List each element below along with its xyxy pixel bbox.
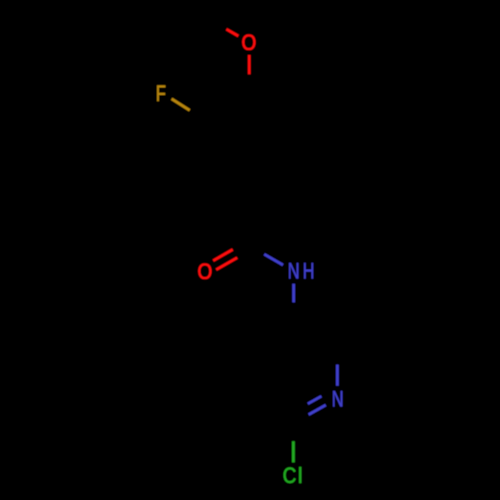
svg-text:C: C [283, 465, 297, 489]
svg-text:O: O [198, 260, 213, 285]
bond C=O2 double line 1 (upper, half near O, red) [213, 250, 233, 261]
bond C2-N1(pyridine) (half near N, blue) [336, 365, 339, 386]
svg-text:H: H [303, 260, 315, 284]
svg-text:l: l [298, 464, 302, 488]
bond N(H)-C3(pyridine) (half near N, blue) [292, 284, 295, 303]
svg-text:O: O [242, 31, 257, 56]
bond C=O2 double line 2 (lower, half near O, red) [216, 258, 237, 270]
bond C6-Cl (half near Cl, green) [292, 441, 295, 462]
bond N1=C6 double main line (half near N, blue) [309, 405, 326, 415]
bond F-C3(ring) (half near F, goldenrod) [172, 99, 190, 111]
bond N1=C6 double inner line (half near N, blue) [308, 396, 322, 404]
svg-text:N: N [288, 259, 300, 284]
svg-text:F: F [156, 82, 166, 107]
svg-text:N: N [332, 387, 344, 412]
bond O1-C4(ring) (half near O, red) [248, 55, 251, 74]
bond CH3-O1 (half near O, red) [226, 29, 238, 36]
bond C(amide)-N(H) (half near N, blue) [264, 254, 283, 265]
